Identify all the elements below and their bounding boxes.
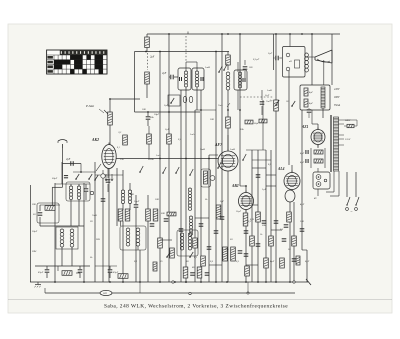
OT terminals (286, 53, 290, 57)
switch b2 (189, 256, 191, 258)
wire v160 (159, 52, 161, 283)
resistor R20 (269, 236, 274, 246)
wire v201 (200, 90, 202, 282)
svg-text:1mA: 1mA (156, 154, 161, 157)
gang 3 coil A (180, 233, 183, 236)
capacitor 63uF mid (108, 269, 113, 271)
resistor anode 276 (274, 100, 279, 111)
wire h110 (195, 109, 216, 111)
capacitor C13 (190, 272, 195, 274)
AF7 cathode box (201, 169, 211, 187)
capacitor C11 (164, 218, 169, 220)
wire h186b (266, 185, 276, 187)
svg-text:10µF: 10µF (32, 230, 38, 233)
wire AZ1 top (317, 124, 319, 130)
wire choke leads (311, 34, 313, 85)
tube AF7 pentode (218, 151, 238, 171)
svg-text:AL4: AL4 (277, 167, 285, 171)
switch contacts mid (218, 71, 220, 73)
svg-text:15µF: 15µF (236, 211, 242, 213)
band switch aerial a (75, 178, 77, 180)
svg-text:7mA: 7mA (218, 104, 223, 107)
wire speaker link (305, 56, 315, 58)
tube AZ1 rectifier (311, 130, 325, 145)
capacitor C19 (256, 243, 261, 245)
tube AL4 lower electrode (285, 190, 295, 202)
switch S4 (217, 167, 219, 169)
resistor 263h (259, 119, 267, 123)
svg-text:50µF: 50µF (254, 123, 259, 125)
wire v258 (257, 150, 259, 282)
resistor osc grid (45, 206, 55, 211)
osc coil lower (189, 216, 192, 219)
AGC dashed line (240, 96, 274, 98)
tube AK2 octode (102, 145, 116, 169)
resistor az1 a (314, 150, 323, 154)
capacitor 2uF top (170, 75, 172, 80)
resistor extra 155 (153, 262, 157, 271)
wire v103 (102, 175, 104, 282)
svg-text:7mΩ: 7mΩ (200, 148, 205, 151)
trimmer cap 50pF aerial (64, 175, 68, 177)
svg-text:Saba, 248 WLK, Wechselstrom, 2: Saba, 248 WLK, Wechselstrom, 2 Vorkreise… (104, 303, 288, 310)
resistor R13 (216, 205, 221, 219)
capacitor extra 240b (238, 250, 243, 252)
wire v263 (262, 100, 264, 150)
wire h250r (302, 249, 307, 251)
wire v273 short (273, 34, 275, 70)
fuse terminal 1 (316, 175, 321, 180)
wire top right drop (331, 34, 333, 85)
resistor 245 mid (243, 213, 248, 226)
ground left cluster (37, 281, 39, 283)
AK2 grid pins (96, 164, 101, 171)
wire h205 (252, 204, 258, 206)
wire h186a (240, 185, 246, 187)
wire heater drop a (333, 171, 335, 192)
capacitor 2uF series (70, 161, 72, 166)
capacitor 8uF b (305, 159, 307, 163)
svg-text:180V: 180V (334, 96, 340, 99)
svg-text:50µF: 50µF (52, 177, 58, 180)
capacitor mid1 (134, 204, 139, 206)
svg-text:1mΩ: 1mΩ (205, 66, 210, 69)
svg-text:2µF: 2µF (268, 52, 273, 55)
caption rule (8, 299, 392, 301)
resistor AGC (226, 55, 231, 65)
zigzag res mid (167, 212, 176, 216)
osc coil upper (188, 188, 191, 191)
trimmer below AK2 (101, 174, 105, 178)
resistor bottom left (62, 271, 72, 276)
wire v294 (293, 202, 295, 282)
wire v117 (116, 168, 118, 226)
wire AF7 anode (227, 135, 229, 151)
svg-text:2µF: 2µF (162, 72, 167, 75)
svg-text:4µF: 4µF (300, 203, 305, 206)
wire h155b (209, 154, 218, 156)
ground mark end of bus (306, 279, 311, 285)
wire IF2 leads (237, 62, 239, 72)
svg-text:1µF: 1µF (262, 188, 267, 191)
capacitor 258 168 (256, 174, 261, 176)
wire v209 (208, 155, 210, 282)
speaker cone (315, 50, 332, 57)
resistor extra 298 (296, 256, 300, 265)
wire v95 down (94, 162, 96, 282)
wire h175 b (266, 174, 276, 176)
capacitor right of res (78, 269, 83, 271)
resistor 249h (245, 120, 253, 124)
wire v307 (306, 250, 308, 282)
wave switch box (168, 95, 180, 106)
wire AZ1 bottom (317, 145, 319, 149)
mains switch 1 (347, 197, 350, 205)
band coil set 1 loops A (69, 186, 72, 189)
AK2 bottom arrows (105, 174, 107, 181)
wire v302 (301, 110, 303, 250)
wire v84 (83, 183, 85, 282)
capacitor C24 (244, 253, 249, 255)
capacitor C18 (244, 230, 249, 232)
resistor R10 (158, 238, 163, 248)
capacitor 100pF (146, 116, 151, 118)
svg-text:WB: WB (96, 238, 100, 241)
capacitor C21 (282, 238, 287, 240)
svg-text:P-Stat: P-Stat (85, 104, 94, 108)
gang 3 frame (177, 230, 198, 256)
svg-text:2µF: 2µF (265, 94, 270, 97)
output transformer box (283, 47, 306, 78)
svg-text:8µF: 8µF (270, 260, 275, 263)
resistor 169b (167, 134, 172, 144)
svg-text:63µF: 63µF (38, 271, 44, 274)
wire v271 (270, 150, 272, 282)
wire bottom ground bus (30, 281, 308, 283)
wire anode AK2 (116, 158, 218, 160)
aerial symbol (62, 144, 64, 148)
switch S6 (139, 171, 141, 173)
wire h265b (246, 264, 258, 266)
svg-text:AK2: AK2 (91, 138, 99, 142)
wire h168 a (252, 167, 266, 169)
switch b1 (166, 256, 168, 258)
iron core coil L2 (70, 229, 74, 233)
resistor extra 203 (201, 256, 206, 266)
wire h265a (209, 264, 222, 266)
capacitor C17 (205, 272, 210, 274)
resistor mid1 (118, 209, 123, 221)
resistor R17 (250, 236, 255, 246)
wire h266 left (35, 265, 90, 267)
svg-text:8µF: 8µF (300, 161, 305, 164)
capacitor extra 209 (207, 246, 212, 248)
band coil set 1 loops B (77, 186, 80, 189)
switch right a (275, 104, 277, 106)
svg-text:8µF: 8µF (309, 92, 313, 94)
capacitor C16 (220, 216, 225, 218)
wire pstat top link (110, 98, 140, 100)
svg-text:0,1: 0,1 (178, 138, 181, 141)
svg-text:2µF: 2µF (220, 201, 224, 203)
wire AB2 leads (245, 186, 247, 193)
wire mains left (346, 172, 348, 197)
band coil set 2 B (128, 190, 131, 193)
switch right b (291, 105, 293, 107)
wire h left лат (95, 265, 117, 267)
wire v266 (265, 150, 267, 282)
wire v140 long (134, 52, 136, 113)
power transformer primary (334, 117, 339, 171)
switch S5 (242, 159, 244, 161)
svg-text:AZ1: AZ1 (301, 125, 309, 129)
wire heater drop b (338, 171, 340, 196)
wire top HT bus (147, 33, 340, 35)
tube AL4 output (284, 173, 300, 190)
band coil set 2 A (121, 190, 124, 193)
capacitor extra 286 (284, 224, 289, 226)
wire screen bus (135, 51, 230, 53)
svg-text:0,1: 0,1 (117, 147, 120, 149)
capacitor 245 (243, 66, 248, 68)
switch S3 (189, 174, 191, 176)
resistor R12 (193, 238, 198, 248)
fuse box (313, 172, 330, 189)
capacitor C10 (150, 223, 155, 225)
capacitor C22 (292, 258, 297, 260)
svg-text:1mΩ: 1mΩ (267, 89, 272, 92)
wire h218 (195, 217, 209, 219)
iron core coil L1 (60, 229, 64, 233)
resistor tap (347, 124, 354, 127)
resistor R16 (245, 266, 250, 276)
capacitor 30pF v103 (101, 198, 106, 200)
svg-text:1mA: 1mA (190, 133, 195, 136)
svg-text:2µF: 2µF (66, 158, 71, 161)
choke box (300, 85, 330, 110)
resistor R25 (197, 267, 202, 278)
resistor P-Stat (108, 112, 113, 125)
wire drop b282 (139, 282, 141, 293)
IF2 secondary coil (238, 72, 241, 75)
trafo taps (339, 119, 345, 121)
wire antenna line (63, 163, 82, 165)
wire IF1 bottom leads (185, 87, 187, 282)
wire h175 left (95, 174, 123, 176)
OT winding (305, 53, 309, 57)
junction dots mid (227, 109, 229, 111)
resistor HT dropper (145, 37, 150, 48)
resistor 149 (147, 134, 152, 144)
capacitor below choke (307, 109, 312, 111)
resistor in choke box 1 (304, 88, 308, 96)
mains plug 1 (346, 208, 349, 211)
tube AB2 duodiode (239, 193, 254, 210)
wire v216 (215, 52, 217, 283)
resistor in choke box 2 (304, 99, 308, 107)
resistor R14 (223, 247, 228, 261)
gang dashed link (185, 36, 187, 62)
speaker coil drop (289, 34, 291, 47)
svg-text:8µF: 8µF (300, 152, 305, 155)
svg-text:125V: 125V (345, 138, 351, 141)
resistor R18 (256, 212, 261, 222)
svg-text:2µF: 2µF (150, 56, 155, 59)
wire aerial drop (62, 148, 64, 187)
capacitor 63uF left (45, 269, 50, 271)
IF1 tuning cap (179, 77, 181, 81)
wire v289 top (288, 70, 290, 165)
mains plug 2 (355, 208, 358, 211)
coil frame 2 (120, 226, 146, 250)
resistor R24 (183, 267, 188, 278)
svg-text:~: ~ (351, 210, 353, 214)
wire v252 (251, 150, 253, 282)
resistor mid2 (146, 209, 151, 221)
capacitor pad 1 (84, 188, 89, 190)
wire v222 (221, 34, 223, 282)
wire h160a (252, 159, 271, 161)
fuse in heater bus (100, 290, 112, 295)
heater bus upturn (44, 288, 46, 293)
resistor az1 b (314, 159, 323, 163)
mains switch 2 (356, 197, 359, 205)
svg-text:1mΩ: 1mΩ (230, 148, 235, 151)
junction circles bottom (172, 281, 174, 283)
resistor screen feed (145, 72, 150, 84)
IF2 coil primary (226, 72, 230, 76)
capacitor trim 50pF (38, 212, 43, 214)
svg-text:245V: 245V (334, 88, 340, 91)
capacitor C15 (214, 230, 219, 232)
svg-text:15µF: 15µF (134, 200, 140, 203)
AF7 bypass circle (210, 176, 215, 181)
wire AL4 leads (291, 165, 293, 173)
wire heater bus (45, 292, 295, 294)
wire h112 (135, 111, 201, 113)
resistor 125 grid (123, 135, 128, 145)
gang 3 coil B (188, 233, 191, 236)
capacitor 8uF a (305, 150, 307, 154)
wire h230 (271, 229, 282, 231)
resistor R21 (280, 258, 285, 268)
switch S1 (162, 172, 164, 174)
svg-text:0,1µF: 0,1µF (253, 58, 260, 61)
wire v169 (168, 34, 170, 282)
wire v276 (275, 34, 277, 282)
trimmer ellipse (183, 96, 187, 102)
svg-text:WD: WD (103, 292, 107, 295)
svg-text:7mΩ: 7mΩ (92, 214, 97, 217)
AF7 cathode resistor (204, 171, 208, 184)
switch on v95 (94, 179, 96, 181)
wire IF1 top leads (185, 62, 187, 71)
svg-text:2µF: 2µF (164, 104, 169, 107)
valve socket table (47, 50, 107, 74)
junction dots buses2 (145, 51, 147, 53)
svg-text:AB2: AB2 (231, 184, 239, 188)
wire h240a (160, 239, 172, 241)
wire mains right (355, 172, 357, 197)
wire h150a (246, 149, 266, 151)
wire fuse leads (317, 168, 319, 172)
wire P-stat top (109, 99, 111, 107)
aerial coil frame (66, 182, 90, 201)
IF1 secondary coil (195, 71, 198, 74)
field winding (321, 87, 325, 108)
resistor R23 (292, 236, 297, 246)
resistor R15 (231, 247, 236, 261)
capacitor extra 264 (262, 220, 267, 222)
svg-text:0,1: 0,1 (134, 260, 137, 263)
svg-text:8µF: 8µF (309, 103, 313, 105)
resistor R11 (170, 248, 175, 258)
iron coil set 2 (126, 228, 130, 232)
capacitor C12 (179, 228, 184, 230)
wire v181 (180, 90, 182, 282)
svg-text:240V: 240V (345, 119, 351, 122)
svg-text:0,1: 0,1 (236, 260, 239, 263)
wire v55 (54, 183, 56, 282)
svg-text:0,1: 0,1 (194, 256, 197, 259)
svg-text:2µF: 2µF (165, 128, 170, 131)
capacitor OT link (275, 56, 277, 61)
wire v195 (194, 110, 196, 282)
capacitor anode 262 (260, 101, 265, 103)
wire v240 (239, 34, 241, 186)
IF2 tuning cap (242, 78, 244, 82)
wire h226 (40, 225, 84, 227)
trafo core (331, 115, 333, 172)
capacitor C20 (274, 220, 279, 222)
svg-text:10pF: 10pF (154, 113, 160, 116)
coil frame 1 (56, 227, 78, 249)
capacitor C14 (199, 223, 204, 225)
wire v62 top (61, 162, 63, 184)
junction dots bottom (54, 281, 56, 283)
left cluster frame (37, 203, 59, 223)
resistor in box (118, 274, 128, 279)
fuse terminal 2 (316, 182, 321, 187)
capacitor C23 (300, 228, 305, 230)
IF transformer 1 can (178, 68, 191, 90)
IF transformer 2 can (234, 70, 247, 90)
IF1 primary coil (184, 71, 187, 74)
resistor 228b (226, 117, 231, 128)
resistor R19 (264, 258, 269, 268)
resistor R22 (287, 212, 292, 222)
wire AK2 cathode (108, 171, 110, 283)
wire left edge vertical (30, 185, 32, 282)
switch S2 (175, 172, 177, 174)
svg-text:35mA: 35mA (334, 104, 340, 107)
